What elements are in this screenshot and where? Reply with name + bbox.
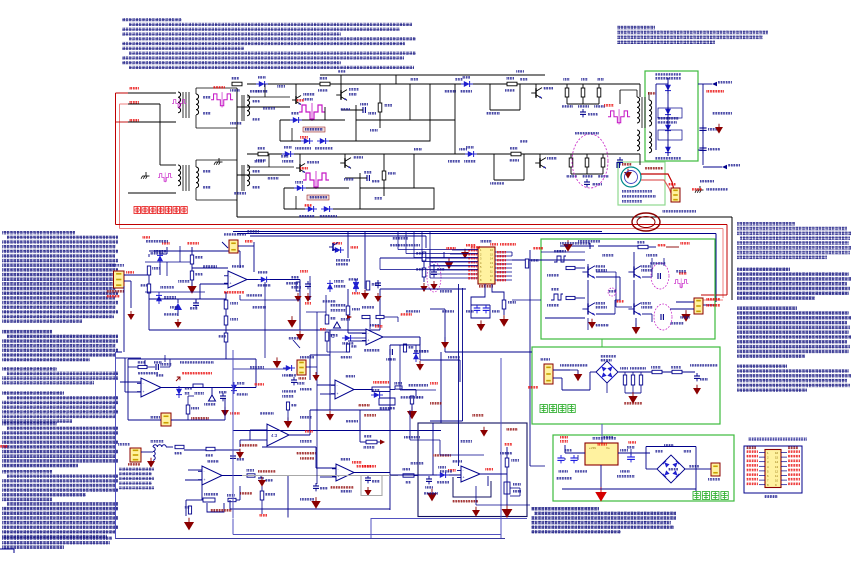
svg-text:-: - (368, 332, 369, 336)
svg-text:+: + (230, 281, 232, 285)
svg-text:11: 11 (775, 474, 778, 478)
svg-text:4:3: 4:3 (271, 433, 278, 438)
svg-text:-: - (338, 467, 339, 471)
svg-text:-: - (337, 384, 338, 388)
svg-text:C: C (331, 334, 335, 340)
svg-text:+: + (204, 478, 206, 482)
svg-text:13: 13 (775, 465, 779, 469)
svg-text:-: - (463, 469, 464, 473)
svg-text:10: 10 (775, 479, 779, 483)
svg-text:Vo: Vo (606, 446, 610, 450)
svg-text:16: 16 (775, 451, 779, 455)
svg-text:15: 15 (775, 456, 779, 460)
svg-text:-: - (230, 274, 231, 278)
svg-text:+VIN: +VIN (589, 446, 596, 450)
svg-text:14: 14 (775, 460, 779, 464)
svg-text:12: 12 (775, 469, 779, 473)
svg-text:+: + (463, 476, 465, 480)
svg-text:+: + (368, 339, 370, 343)
svg-text:-: - (204, 470, 205, 474)
svg-text:-: - (143, 382, 144, 386)
svg-text:+: + (337, 392, 339, 396)
svg-text:+: + (143, 390, 145, 394)
